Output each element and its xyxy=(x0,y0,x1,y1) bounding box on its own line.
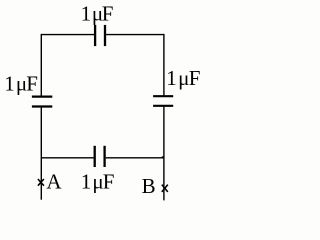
wire bottom-left segment xyxy=(41,157,93,159)
wire right lower segment xyxy=(163,107,165,201)
wire top-left segment xyxy=(41,34,94,36)
svg-text:1μF: 1μF xyxy=(81,2,114,26)
capacitor C1 (top) plates xyxy=(95,25,105,46)
capacitor C2 (left) plates xyxy=(32,97,52,107)
wire left lower segment xyxy=(40,107,42,199)
capacitor C4 (bottom) plates xyxy=(95,146,105,167)
capacitor C3 (right) plates xyxy=(153,96,173,106)
junction nub at bottom-right corner xyxy=(162,156,164,158)
wire top-right segment xyxy=(106,34,164,36)
terminal X mark at B xyxy=(162,185,168,192)
terminal X mark at A xyxy=(38,179,44,186)
svg-text:1μF: 1μF xyxy=(81,169,115,193)
svg-text:B: B xyxy=(142,174,156,198)
wire right upper segment xyxy=(163,34,165,95)
svg-text:1μF: 1μF xyxy=(4,71,38,95)
wire left upper segment xyxy=(40,34,42,96)
wire bottom-right segment xyxy=(106,157,164,159)
svg-text:A: A xyxy=(46,170,62,194)
svg-text:1μF: 1μF xyxy=(166,66,200,90)
